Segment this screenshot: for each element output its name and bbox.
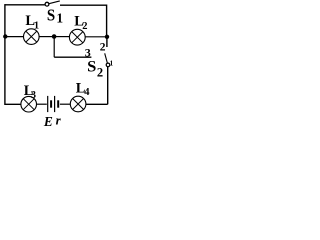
battery cell plate short (negative)	[57, 100, 59, 107]
battery cell plate long (positive)	[47, 96, 49, 112]
wire middle row: L2 to right junction	[85, 36, 107, 38]
wire switch S2 terminal 2 lead (junction down to contact 2)	[106, 37, 108, 47]
svg-text:2: 2	[82, 21, 87, 32]
wire bottom row: battery to lamp L4	[60, 103, 71, 105]
switch S2 pivot terminal 1 circle	[106, 63, 110, 67]
wire top-left segment (top rail from corner to S1)	[5, 4, 45, 6]
wire middle row: middle junction to lamp L2	[54, 36, 69, 38]
switch S2 lever (blade pointing up from pivot)	[105, 53, 108, 63]
svg-text:1: 1	[34, 20, 39, 31]
lamp L4	[70, 96, 86, 112]
wire stub down from middle junction	[53, 37, 55, 58]
svg-text:4: 4	[84, 87, 90, 98]
wire bottom row: L3 to battery	[37, 103, 47, 105]
svg-text:2: 2	[97, 65, 103, 79]
lamp L1	[24, 29, 40, 45]
wire middle row: left dot to lamp L1	[5, 36, 24, 38]
wire top-right segment (from S1 to top-right corner)	[60, 4, 107, 6]
node right junction dot	[105, 35, 109, 39]
wire bottom row: corner to lamp L3	[5, 103, 21, 105]
battery cell plate short (negative)	[50, 100, 52, 107]
wire right rail bottom (from S2 terminal 1 down to corner)	[107, 67, 109, 105]
switch S1 lever (open blade)	[49, 1, 60, 4]
lamp L3	[21, 96, 37, 112]
svg-text:E: E	[43, 114, 53, 127]
wire bottom row: L4 to bottom-right corner	[86, 103, 108, 105]
svg-text:1: 1	[56, 11, 63, 26]
svg-text:S: S	[47, 5, 55, 24]
wire right rail top (corner down to junction dot)	[106, 5, 108, 37]
node middle junction dot	[52, 34, 57, 39]
svg-text:1: 1	[110, 60, 113, 68]
svg-text:r: r	[56, 113, 62, 127]
svg-text:2: 2	[100, 42, 106, 54]
svg-text:S: S	[87, 59, 96, 76]
lamp L2	[69, 29, 85, 45]
svg-text:3: 3	[85, 45, 91, 59]
wire switch S2 terminal 3 lead (horizontal to contact 3)	[54, 56, 91, 58]
switch S1 pivot terminal circle	[45, 2, 49, 6]
svg-text:3: 3	[31, 90, 36, 101]
node left junction dot	[3, 34, 7, 38]
wire left rail	[4, 4, 6, 105]
wire middle row: L1 to middle junction	[39, 36, 54, 38]
battery cell plate long (positive)	[54, 96, 56, 112]
